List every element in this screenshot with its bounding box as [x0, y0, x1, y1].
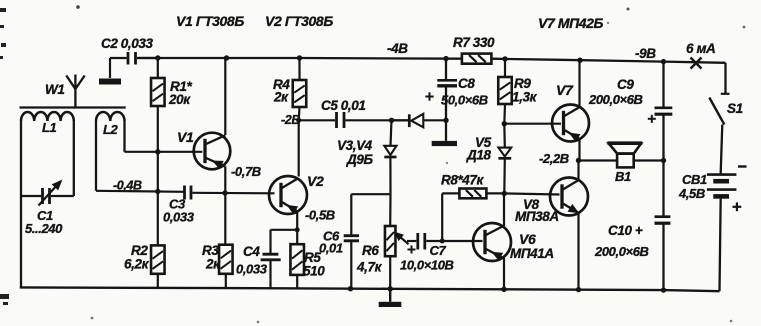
node C8 rail [443, 56, 448, 61]
capacitor C5 [299, 98, 392, 128]
capacitor C4 [236, 230, 297, 288]
resistor R1 [151, 58, 192, 191]
capacitor C6 [319, 194, 391, 291]
wire R9 to V7 base [504, 123, 561, 125]
svg-text:2к: 2к [205, 257, 221, 272]
transistor V7 [552, 82, 589, 142]
svg-text:6,2к: 6,2к [124, 257, 150, 272]
svg-text:C8: C8 [458, 76, 475, 91]
label V2 emitter voltage [305, 208, 335, 223]
label V1 emitter voltage [231, 164, 261, 179]
svg-text:-9В: -9В [635, 46, 656, 61]
wire L2 to C3 node [96, 191, 184, 192]
svg-text:4,5В: 4,5В [678, 186, 705, 201]
ground (antenna earth) [99, 79, 121, 85]
label -4V [387, 41, 408, 56]
switch S1 [709, 63, 742, 164]
label V3 V4 [337, 138, 373, 167]
svg-text:B1: B1 [615, 169, 631, 184]
node R4 top rail [297, 55, 302, 60]
svg-text:V1: V1 [177, 129, 194, 145]
node R1 top rail [155, 55, 160, 60]
battery GB1 [678, 164, 747, 292]
label V2 type [265, 13, 333, 29]
node C5 tap [296, 118, 301, 123]
svg-text:1,3к: 1,3к [512, 90, 538, 105]
label V1 type [176, 13, 244, 29]
wire R4 to V2 collector [298, 120, 300, 176]
svg-text:-0,4В: -0,4В [113, 179, 142, 193]
svg-text:V1 ГТ308Б: V1 ГТ308Б [176, 13, 244, 29]
svg-text:50,0×6В: 50,0×6В [441, 93, 488, 108]
node V3 anode junction [389, 118, 394, 123]
svg-text:C5 0,01: C5 0,01 [321, 98, 365, 113]
transistor V2 [269, 173, 324, 214]
svg-text:0,033: 0,033 [163, 210, 195, 225]
svg-text:Д18: Д18 [466, 148, 491, 163]
node R9/V5/V7 [502, 121, 507, 126]
node V1 emitter / C3 wire [222, 190, 227, 195]
resistor R7 [453, 35, 495, 64]
potentiometer R6 [356, 194, 409, 291]
resistor R2 [124, 191, 165, 288]
svg-text:-2В: -2В [281, 113, 300, 127]
node C4 tap [295, 227, 300, 232]
wire to V8 base [504, 193, 559, 194]
diode V3 [392, 114, 447, 128]
svg-text:V2: V2 [307, 173, 324, 189]
svg-text:-0,7В: -0,7В [231, 164, 261, 179]
node V7 collector rail [577, 58, 582, 63]
wire speaker [579, 159, 664, 161]
svg-text:20к: 20к [168, 92, 191, 107]
ground (C8) [432, 141, 457, 146]
node C8 diode junction [443, 118, 448, 123]
svg-text:C4: C4 [243, 244, 260, 259]
wire C7 node to V6 base [442, 240, 482, 242]
wire L2 to V1 base [125, 151, 203, 153]
svg-text:W1: W1 [45, 82, 64, 97]
capacitor C10 [594, 161, 670, 293]
svg-text:10,0×10В: 10,0×10В [400, 258, 454, 273]
capacitor C8 [425, 59, 487, 141]
capacitor C2 [101, 36, 158, 78]
transistor V6 [473, 223, 554, 261]
wire V1 collector [224, 58, 226, 135]
svg-text:0,01: 0,01 [319, 241, 343, 256]
wire V2 emitter [296, 211, 298, 245]
svg-text:СВ1: СВ1 [682, 172, 707, 187]
ground (common) [379, 289, 402, 307]
svg-text:R7 330: R7 330 [453, 35, 495, 50]
resistor R9 [498, 59, 537, 124]
svg-text:C2 0,033: C2 0,033 [101, 36, 153, 51]
label -9V [635, 46, 656, 61]
resistor R8 [441, 173, 504, 242]
speaker B1 [608, 143, 643, 184]
svg-text:2к: 2к [273, 90, 289, 105]
diode V4 [384, 120, 396, 194]
wire antenna lead [20, 106, 126, 108]
antenna W1 [45, 75, 85, 108]
svg-text:S1: S1 [727, 101, 743, 116]
svg-text:V7: V7 [556, 82, 574, 98]
svg-text:200,0×6В: 200,0×6В [588, 92, 643, 107]
wire bottom common rail [20, 287, 720, 291]
node R8/V5/V6/V8 [502, 191, 507, 196]
resistor R3 [202, 193, 233, 288]
label V7 type [538, 15, 604, 31]
svg-text:510: 510 [303, 264, 325, 279]
svg-text:V7 МП42Б: V7 МП42Б [538, 15, 604, 31]
current measuring point X [691, 58, 702, 69]
label V2 collector voltage [281, 113, 300, 127]
wire V6 emitter [501, 258, 506, 292]
variable capacitor C1 [21, 181, 74, 288]
node V7/V8/speaker [576, 158, 581, 163]
svg-text:МП41А: МП41А [510, 246, 554, 261]
svg-text:V2 ГТ308Б: V2 ГТ308Б [265, 13, 333, 29]
node R1-R2 on C3 wire [155, 189, 160, 194]
svg-text:0,033: 0,033 [236, 262, 268, 277]
svg-text:-0,5В: -0,5В [305, 208, 335, 223]
label V7 emitter voltage [539, 151, 569, 166]
node V1 collector rail [224, 55, 229, 60]
svg-text:МП38А: МП38А [515, 209, 559, 224]
node C9 rail [661, 59, 666, 64]
capacitor C7 [400, 233, 454, 273]
wire top supply rail [138, 58, 726, 63]
svg-text:C10 +: C10 + [608, 223, 643, 238]
resistor R4 [273, 58, 306, 120]
inductor L1 [21, 112, 74, 196]
node R1-R2 on base wire [155, 149, 160, 154]
svg-text:V6: V6 [519, 231, 536, 247]
wire V1 emitter [224, 167, 226, 194]
svg-text:C7: C7 [430, 243, 447, 258]
transistor V8 [515, 178, 588, 225]
node speaker/C9C10 [661, 158, 666, 163]
label V1 base voltage [113, 179, 142, 193]
svg-text:5...240: 5...240 [25, 221, 63, 236]
svg-text:L2: L2 [103, 122, 119, 137]
svg-text:-4В: -4В [387, 41, 408, 56]
label 6mA [686, 41, 715, 56]
capacitor C9 [588, 62, 672, 161]
capacitor C3 [163, 186, 275, 225]
node R8/C7/V6 base [440, 239, 445, 244]
node R9 rail [502, 56, 507, 61]
wire V8 emitter [576, 212, 581, 292]
svg-text:C9: C9 [617, 77, 634, 92]
diode V5 [466, 124, 511, 194]
svg-text:L1: L1 [42, 120, 57, 135]
wire V8 collector [577, 161, 579, 182]
wire V7 collector [578, 60, 580, 108]
wire V6 collector [503, 193, 505, 226]
svg-text:Д9Б: Д9Б [346, 152, 373, 167]
svg-text:R6: R6 [362, 243, 379, 258]
svg-text:-2,2В: -2,2В [539, 151, 569, 166]
resistor R5 [290, 244, 325, 288]
transistor V1 [177, 129, 230, 169]
svg-text:V3,V4: V3,V4 [337, 138, 373, 153]
wire V7 emitter [578, 138, 580, 160]
inductor L2 [96, 112, 125, 191]
svg-text:R8*47к: R8*47к [441, 173, 485, 188]
svg-text:200,0×6В: 200,0×6В [594, 244, 649, 259]
svg-text:4,7к: 4,7к [356, 260, 383, 275]
svg-text:6 мА: 6 мА [686, 41, 715, 56]
